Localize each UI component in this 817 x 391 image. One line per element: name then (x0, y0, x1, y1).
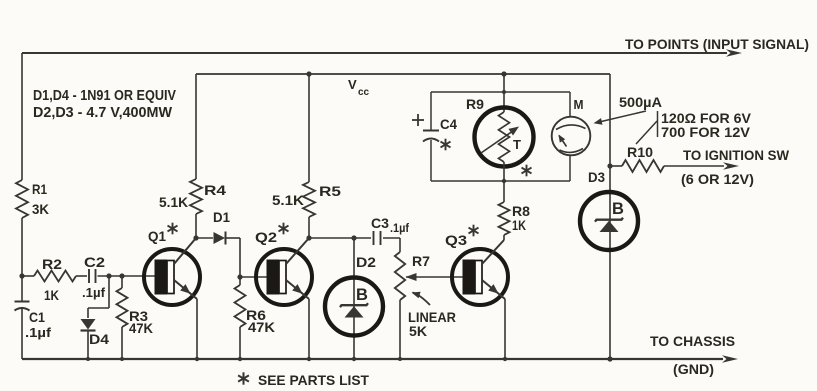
svg-text:5.1K: 5.1K (272, 192, 304, 208)
resistor R10 (610, 160, 724, 172)
svg-text:500µA: 500µA (619, 94, 662, 110)
resistor R5 (303, 182, 315, 217)
resistor R6 (235, 285, 246, 327)
wire: C3 to R7 (383, 238, 400, 252)
svg-text:.1µf: .1µf (82, 285, 106, 300)
svg-text:D2,D3 - 4.7 V,400MW: D2,D3 - 4.7 V,400MW (33, 105, 172, 121)
node: Q2 collector / R5 (306, 235, 311, 240)
pointer lines for R10 value note (636, 111, 658, 144)
transistor Q1 (144, 238, 200, 305)
asterisk for Q2 (279, 223, 289, 235)
wire: collector node to D2 node (309, 237, 371, 239)
R7 wiper arm to Q3 base (406, 273, 465, 281)
svg-text:Q2: Q2 (255, 229, 277, 245)
svg-text:C2: C2 (84, 254, 105, 270)
node: Q2 base / R6 (237, 274, 242, 279)
transistor Q2 (256, 238, 312, 305)
svg-text:R5: R5 (319, 183, 341, 199)
wire: R9 top lead (503, 74, 505, 112)
asterisk for parts list (238, 372, 249, 384)
transistor Q3 (452, 240, 508, 305)
svg-text:D1,D4 - 1N91 OR EQUIV: D1,D4 - 1N91 OR EQUIV (33, 88, 176, 104)
capacitor C4 (electrolytic) (423, 131, 439, 142)
svg-text:D1: D1 (213, 209, 230, 225)
svg-text:R9: R9 (466, 96, 484, 112)
asterisk near C4 (441, 139, 451, 151)
svg-text:47K: 47K (248, 319, 275, 335)
wire: R3 branch (121, 276, 123, 359)
node: D4 branch (106, 273, 111, 278)
resistor R7 potentiometer (395, 252, 405, 300)
arrowhead to chassis (722, 355, 738, 363)
node: R2 tap on left rail (19, 273, 24, 278)
wire: Q2 base (240, 276, 268, 278)
svg-text:M: M (574, 97, 584, 112)
wire: R6 branch (239, 277, 241, 359)
svg-text:.1µf: .1µf (25, 325, 52, 340)
resistor R3 (117, 288, 128, 327)
svg-text:B: B (612, 200, 624, 218)
node: D3 on ground rail (607, 356, 612, 361)
node: box bottom crossing (502, 179, 506, 183)
capacitor C3 (374, 231, 381, 245)
node: R10 junction (607, 163, 612, 168)
svg-text:D2: D2 (356, 254, 376, 270)
wire: Vcc rail (196, 74, 610, 179)
node: D2 / C3 (351, 235, 356, 240)
wire: base line y=276 (22, 275, 156, 277)
resistor R4 (190, 179, 202, 214)
diode D1 (196, 232, 240, 245)
resistor R8 (499, 202, 510, 235)
svg-text:C1: C1 (29, 309, 45, 325)
svg-text:C4: C4 (440, 116, 457, 132)
asterisk inside box (522, 165, 532, 177)
capacitor C1 (15, 302, 30, 311)
svg-text:R10: R10 (627, 144, 653, 160)
capacitor C2 (89, 269, 96, 283)
svg-text:B: B (356, 286, 368, 304)
diode D4 (81, 319, 96, 331)
wire: bottom ground rail (22, 358, 723, 360)
wire: R4 to D1 node (195, 214, 197, 238)
meter M (552, 117, 591, 156)
svg-text:700 FOR 12V: 700 FOR 12V (661, 124, 751, 140)
svg-text:cc: cc (358, 87, 370, 98)
node: R3 branch (119, 273, 124, 278)
svg-text:TO IGNITION SW: TO IGNITION SW (683, 147, 790, 163)
svg-text:TO POINTS (INPUT SIGNAL): TO POINTS (INPUT SIGNAL) (625, 36, 809, 52)
svg-text:Q3: Q3 (445, 232, 467, 248)
annotation arrow for LINEAR (413, 293, 431, 306)
svg-text:C3: C3 (371, 215, 389, 231)
wire: Q3 emitter to ground (504, 299, 506, 359)
svg-text:5K: 5K (409, 323, 427, 339)
svg-text:3K: 3K (32, 201, 49, 217)
wire: R7 bottom to ground (399, 300, 401, 359)
wire: Q1 emitter to ground (196, 299, 198, 359)
svg-text:D3: D3 (588, 169, 605, 185)
wire: R9 bottom lead to R8 (503, 162, 505, 202)
svg-text:5.1K: 5.1K (159, 194, 188, 210)
wire: R8 bottom to Q3 collector (503, 235, 505, 240)
wire: D2 leads (353, 238, 355, 359)
wire: D1 cathode down to Q2 base node (239, 238, 241, 277)
svg-text:SEE PARTS LIST: SEE PARTS LIST (258, 372, 369, 388)
wire: D4 branch (88, 276, 109, 359)
svg-text:R2: R2 (42, 256, 62, 272)
svg-text:R7: R7 (412, 253, 430, 269)
node: ground rail junctions (86, 357, 507, 361)
wire: left vertical rail (21, 53, 23, 359)
asterisk for Q3 (469, 225, 479, 237)
resistor R1 (16, 180, 28, 218)
node: box top crossing (502, 90, 506, 94)
svg-text:1K: 1K (512, 217, 526, 233)
arrowhead to ignition (723, 162, 739, 170)
thermistor R9 (475, 108, 534, 167)
svg-text:.1µf: .1µf (390, 221, 410, 235)
zener diode D3 (580, 192, 638, 250)
asterisk for Q1 (168, 223, 178, 235)
C4 plus sign (412, 114, 424, 126)
svg-text:R4: R4 (204, 182, 226, 198)
svg-text:TO CHASSIS: TO CHASSIS (650, 333, 735, 349)
shield box around R9 and meter (431, 92, 570, 181)
label Vcc (348, 77, 370, 98)
svg-text:R1: R1 (32, 181, 47, 197)
arrowhead to points (726, 49, 742, 57)
wire: R5 top lead (308, 74, 310, 182)
svg-text:T: T (513, 137, 521, 152)
pointer: 500uA to meter (594, 111, 647, 125)
node: R5 top on Vcc rail (306, 71, 311, 76)
resistor R2 (34, 271, 76, 282)
wire: top input-signal line (22, 52, 727, 54)
svg-text:(6 OR 12V): (6 OR 12V) (681, 171, 754, 187)
svg-text:V: V (348, 77, 357, 92)
wire: Q2 emitter to ground (308, 299, 310, 359)
svg-text:1K: 1K (44, 287, 59, 303)
node: Q1 collector / R4 / D1 (193, 235, 198, 240)
svg-text:47K: 47K (129, 320, 153, 336)
wire: right vertical (Vcc to D3) (609, 74, 611, 359)
node: R9 top on Vcc rail (501, 71, 506, 76)
svg-text:D4: D4 (89, 331, 109, 347)
wire: R5 bottom lead (308, 217, 310, 238)
zener diode D2 (325, 278, 383, 336)
svg-text:Q1: Q1 (148, 228, 166, 244)
svg-text:(GND): (GND) (673, 361, 714, 377)
